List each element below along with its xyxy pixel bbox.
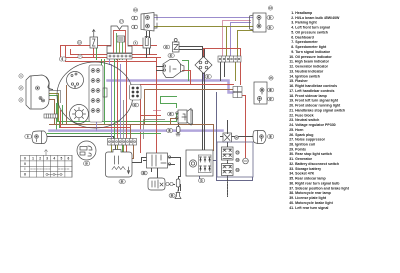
svg-text:32. Battery disconnect switch: 32. Battery disconnect switch (289, 162, 339, 166)
callout 26 (169, 194, 175, 198)
svg-text:23. Neutral switch: 23. Neutral switch (289, 118, 319, 122)
generator 31 (186, 150, 213, 176)
wire dark handlebar drop (147, 32, 150, 58)
speedometer 7 (67, 72, 84, 89)
front sidecar lamp 18 (250, 13, 267, 32)
horn 25 (176, 109, 193, 126)
callout 33 (236, 158, 239, 161)
suppressor + spark plug top (176, 127, 180, 137)
wire purple drop from strip (110, 60, 112, 65)
dip switch below 16 (143, 37, 151, 49)
svg-text:II: II (24, 173, 26, 177)
noise suppressor 27 (176, 179, 180, 187)
svg-text:27. Noise suppressor: 27. Noise suppressor (289, 138, 325, 142)
svg-text:15. Flasher: 15. Flasher (289, 79, 308, 83)
callout 36 (268, 88, 274, 92)
battery minus terminal (243, 158, 249, 164)
callout 7 (78, 54, 82, 58)
spark plug bottom 26 (175, 190, 181, 199)
wire pentagon stubs (157, 67, 164, 71)
svg-text:7. Speedometer: 7. Speedometer (291, 40, 318, 44)
wire dark pair to generator (180, 47, 205, 151)
dashboard 6 ellipse (57, 62, 133, 128)
svg-text:31. Generator: 31. Generator (289, 157, 312, 161)
callout 19 (267, 16, 273, 20)
callout 26 (167, 129, 173, 133)
storage battery cell 1 (222, 147, 234, 160)
svg-text:0: 0 (24, 156, 26, 160)
wire red bend right of pentagon (183, 71, 191, 85)
svg-text:1: 1 (32, 156, 34, 160)
wire red nested corner a (141, 116, 161, 153)
callout 24 (132, 103, 138, 107)
svg-text:18. Front sidecar lamp: 18. Front sidecar lamp (289, 94, 327, 98)
wire purple bus upper (108, 81, 234, 93)
svg-text:6: 6 (68, 156, 70, 160)
svg-text:34. Socket 47K: 34. Socket 47K (289, 172, 314, 176)
wire purple lamp drop (231, 23, 251, 57)
handlebar terminal strip (107, 54, 132, 60)
wire green pair handlebar down (102, 60, 105, 125)
wire dashed battery center (227, 143, 229, 197)
callout 35 (269, 76, 273, 80)
wire gray headlamp right (50, 91, 61, 103)
wire brown horn lower (171, 119, 179, 125)
wire red to battery plus (234, 96, 246, 158)
terminal strip right (218, 56, 241, 62)
callout 32 (205, 75, 211, 79)
svg-text:41. Left rear turn signal: 41. Left rear turn signal (289, 206, 328, 210)
svg-text:17. Left handlebar controls: 17. Left handlebar controls (289, 89, 334, 93)
svg-text:2: 2 (39, 156, 41, 160)
wire green H1 low (48, 133, 161, 135)
svg-text:8. Speedometer light: 8. Speedometer light (291, 45, 327, 49)
wire dark strip drops (221, 63, 225, 81)
ignition coil 28 (106, 150, 133, 178)
wire purple vertical at 96 (96, 123, 98, 131)
svg-text:1. Headlamp: 1. Headlamp (291, 11, 313, 15)
svg-text:30. Rear stop light switch: 30. Rear stop light switch (289, 152, 332, 156)
wire green left small (96, 46, 98, 60)
svg-text:24. Voltage regulator PP330: 24. Voltage regulator PP330 (289, 123, 335, 127)
svg-text:40. Motorcycle brake light: 40. Motorcycle brake light (289, 201, 333, 205)
callout 16 (133, 8, 137, 12)
svg-text:10. Oil pressure indicator: 10. Oil pressure indicator (289, 55, 332, 59)
wire coilA nub to coilB (132, 158, 147, 163)
svg-text:20. Front sidecar running ligh: 20. Front sidecar running light (289, 104, 341, 108)
connector block in dash 24 (130, 85, 142, 101)
wire left bundle corner to signal (57, 106, 63, 131)
storage battery cell 2 (222, 164, 234, 176)
svg-text:36. Right rear turn signal bul: 36. Right rear turn signal bulb (289, 181, 340, 185)
wire green left edge of dash (56, 104, 58, 115)
flasher 15 (90, 30, 98, 49)
svg-text:2. Hi/Lo beam bulb 45W/40W: 2. Hi/Lo beam bulb 45W/40W (291, 16, 340, 20)
svg-text:22. Fuse block: 22. Fuse block (289, 113, 313, 117)
callout 31 (199, 179, 205, 183)
ignition circle 14 (70, 105, 89, 124)
svg-text:5. Oil pressure switch: 5. Oil pressure switch (291, 30, 328, 34)
wire bundle into fuseblock (111, 65, 113, 140)
callout 34 (236, 168, 239, 171)
svg-text:29. Points: 29. Points (289, 147, 306, 151)
wire olive vertical (226, 27, 228, 57)
wire purple bus lower (50, 129, 223, 132)
svg-text:4: 4 (53, 156, 55, 160)
svg-text:5: 5 (61, 156, 63, 160)
wire pink vertical x153 lower (154, 110, 161, 112)
callout 15 (77, 40, 81, 44)
wire green bend above horn (161, 97, 177, 104)
wire diamond bottom to bus (203, 74, 205, 81)
rear stop light switch 30 box (147, 153, 171, 168)
switch position table (21, 156, 73, 178)
svg-text:14. Ignition switch: 14. Ignition switch (289, 74, 320, 78)
wire brown H2 b (145, 90, 234, 125)
wire brown dash left (66, 86, 68, 125)
svg-text:25. Horn: 25. Horn (289, 128, 303, 132)
svg-text:19. Front left turn signal lig: 19. Front left turn signal light (289, 99, 339, 103)
battery frame (217, 142, 253, 177)
svg-text:38. Motorcycle rear lamp: 38. Motorcycle rear lamp (289, 191, 331, 195)
callout 1 (19, 74, 23, 78)
wire olive top run (155, 26, 254, 28)
svg-text:39. License plate light: 39. License plate light (289, 196, 327, 200)
turn signal 4 body (32, 131, 47, 144)
wire suppressor chain vertical (179, 171, 181, 191)
wire olive lamp branch (238, 31, 254, 57)
callout 2 (132, 16, 138, 20)
callout 14 (84, 162, 90, 166)
callout 17 (119, 19, 123, 23)
callout 30 (235, 136, 239, 140)
callout 38 (268, 135, 274, 139)
svg-text:3. Parking light: 3. Parking light (291, 21, 317, 25)
callout 23 (168, 54, 174, 58)
svg-text:16. Right handlebar controls: 16. Right handlebar controls (289, 84, 337, 88)
wire coilB to points (144, 161, 158, 179)
callout 33 (236, 151, 239, 154)
callout 37 (268, 97, 274, 101)
battery disconnect switch 32 (195, 57, 212, 74)
svg-text:13. Neutral indicator: 13. Neutral indicator (289, 69, 324, 73)
connector pair (233, 87, 242, 98)
wire purple top run (155, 17, 254, 19)
wire red top of diamond (204, 49, 241, 85)
svg-text:12. Generator indicator: 12. Generator indicator (289, 65, 328, 69)
headlamp 1 body (26, 75, 49, 109)
callout 6 (59, 57, 66, 61)
rear sidecar lamp 35 (254, 82, 267, 104)
wire fuse to coil verticals (111, 146, 113, 153)
wire olive strip drop (235, 63, 237, 81)
headlamp bulb 2 (36, 86, 45, 102)
wire fuse block down (112, 146, 124, 154)
right handlebar controls 16 (141, 13, 157, 32)
svg-text:37. Sidecar position and brake: 37. Sidecar position and brake light (289, 186, 350, 190)
wire brown H1 (50, 125, 214, 151)
callout 2 (19, 86, 23, 90)
callout 3 (19, 98, 23, 102)
left handlebar controls 17 (107, 26, 132, 53)
callout 5 (133, 41, 137, 45)
wire brown headlamp exit (50, 100, 55, 125)
svg-text:3: 3 (46, 156, 48, 160)
LEGEND (289, 11, 350, 210)
table pointer (45, 150, 48, 156)
svg-text:11. High beam indicator: 11. High beam indicator (289, 60, 329, 64)
callout 29 (141, 171, 147, 175)
svg-text:26. Spark plug: 26. Spark plug (289, 133, 313, 137)
junction switch pentagon (163, 60, 184, 78)
indicator lights block 8-13 (89, 65, 107, 122)
wire red vertical main (156, 58, 158, 154)
wire red bottom of dash (61, 111, 131, 128)
svg-text:9. Turn signal indicator: 9. Turn signal indicator (291, 50, 330, 54)
turn signal right ellipse (253, 131, 266, 144)
wire red verticals above dash (61, 46, 157, 58)
svg-text:21. Handbrake stop signal swit: 21. Handbrake stop signal switch (289, 108, 345, 112)
wire dark turnsignal left (48, 137, 114, 140)
fuse block 22 (108, 139, 137, 146)
callout 21 (164, 45, 170, 49)
wire dark gen to battery (200, 161, 217, 181)
rear stop light switch 30 (223, 133, 232, 142)
wire stub above battery (227, 121, 229, 134)
svg-text:33. Storage battery: 33. Storage battery (289, 167, 321, 171)
points 29 (148, 178, 165, 190)
callout 28 (119, 180, 125, 184)
svg-text:6. Dashboard: 6. Dashboard (291, 35, 313, 39)
wire green H1 to horn (58, 114, 179, 122)
wire green headlamp right (50, 96, 58, 115)
callout 25 (168, 112, 174, 116)
wire points to suppressor (167, 185, 181, 191)
callout 20 (267, 26, 273, 30)
handbrake stop switch 21 (173, 39, 180, 53)
wire red H2 a (141, 85, 234, 121)
wire pink lamp drop (223, 21, 251, 57)
wire gray nested corner b (144, 120, 165, 139)
wire coilB terminals right (170, 158, 181, 171)
callout 18 (268, 6, 272, 10)
wire dark turnsignal right (221, 136, 253, 138)
callout 3 (132, 25, 138, 29)
points terminals (166, 182, 173, 185)
wire red horizontal y62 (66, 58, 157, 62)
wire spark plug top chain (178, 121, 180, 127)
svg-text:4. Left front turn signal: 4. Left front turn signal (291, 26, 330, 30)
wire curved headlamp top (47, 78, 53, 90)
wire green right of pentagon (183, 61, 189, 81)
svg-text:28. Ignition coil: 28. Ignition coil (289, 142, 315, 146)
svg-text:0: 0 (24, 162, 26, 166)
ignition switch 14 lower (77, 141, 96, 160)
wire red loop above dashboard (66, 46, 161, 58)
wire blue battery frame (217, 93, 253, 181)
wire green horn feed upper (161, 104, 177, 108)
callout 4 (25, 134, 32, 138)
connector strip under headlamp (44, 114, 58, 118)
svg-text:35. Rear sidecar lamp: 35. Rear sidecar lamp (289, 177, 326, 181)
svg-text:I: I (25, 167, 26, 171)
wire olive headlamp exit (50, 94, 59, 122)
